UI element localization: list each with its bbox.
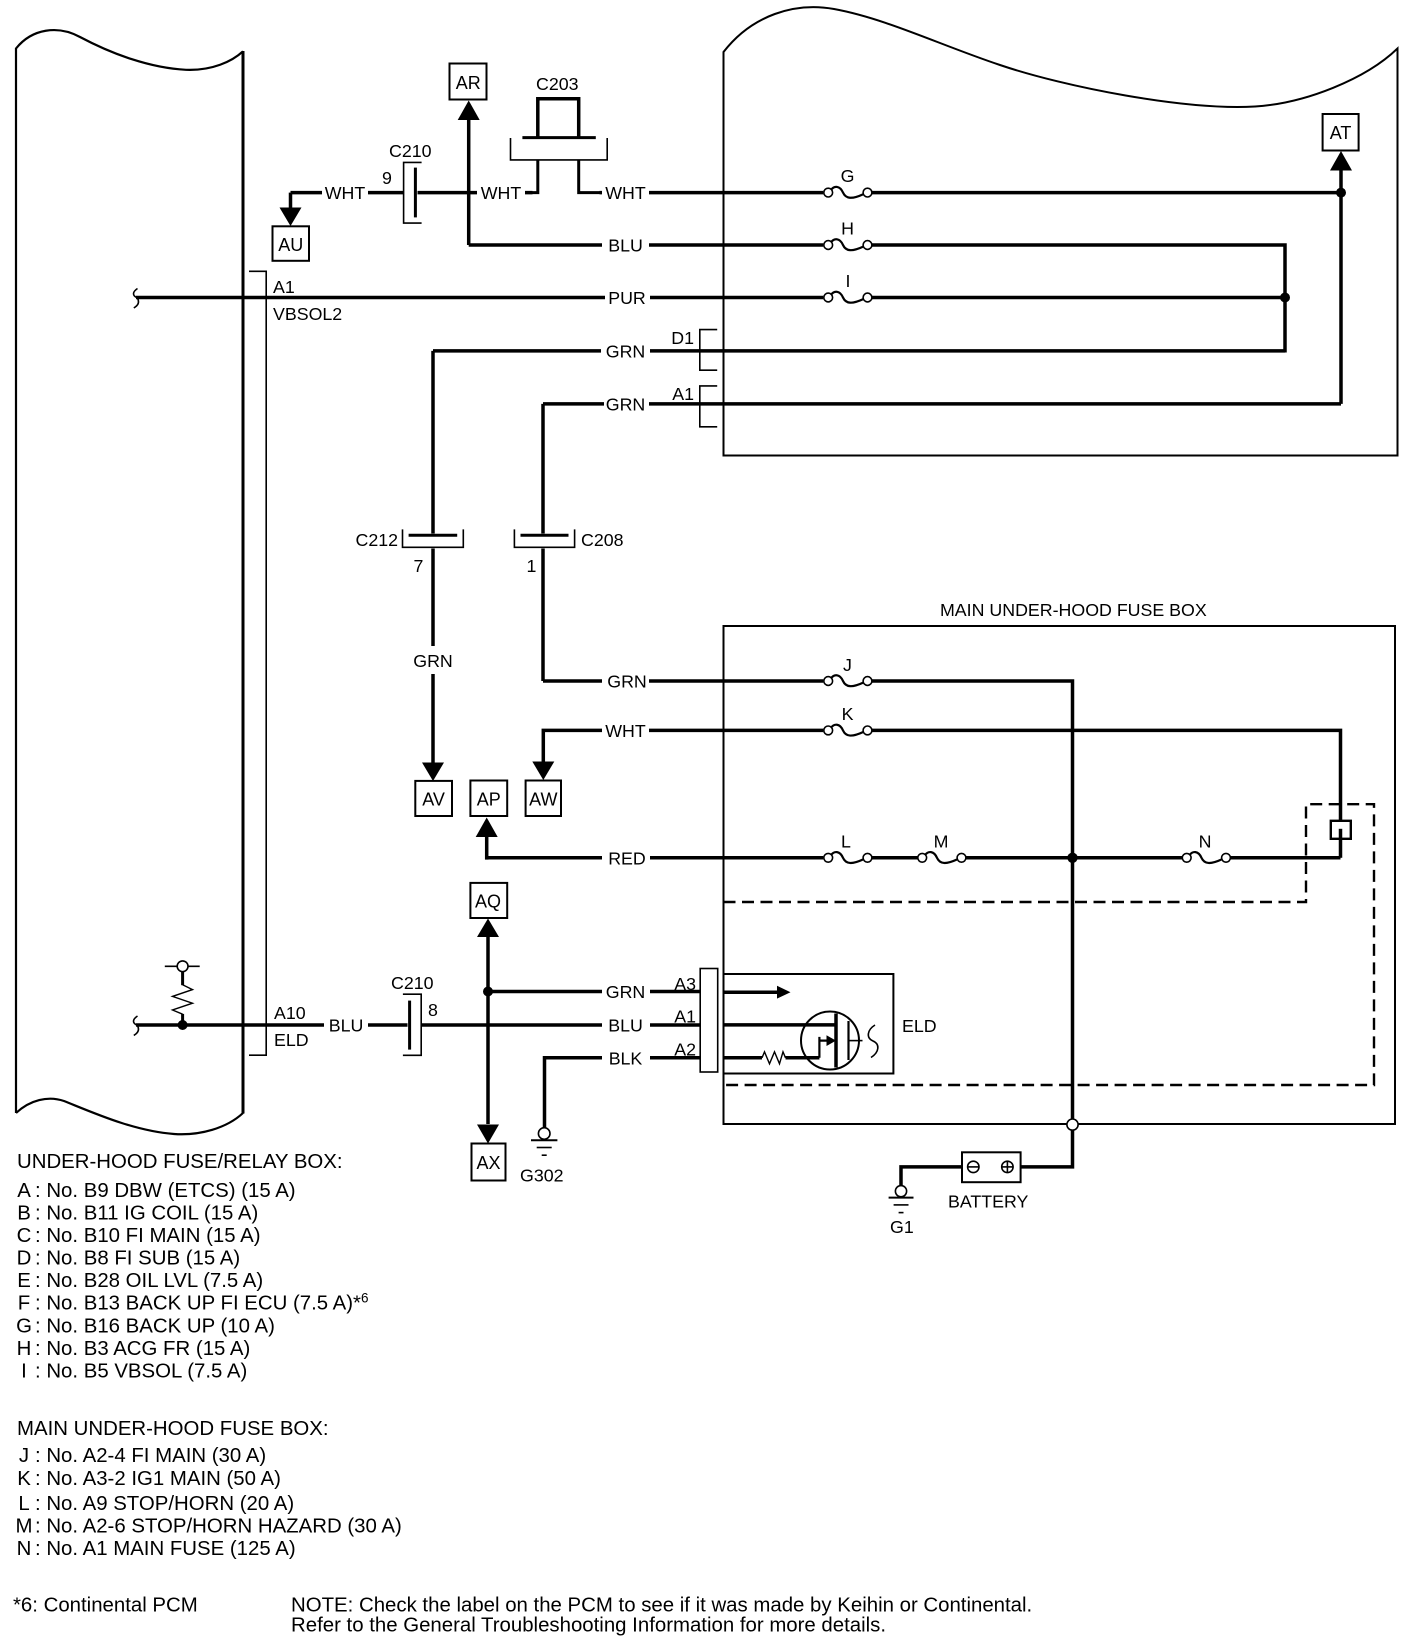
svg-text:: No. B13 BACK UP FI ECU (7.5: : No. B13 BACK UP FI ECU (7.5 A)*6 <box>35 1291 369 1315</box>
svg-text:: No. A3-2 IG1 MAIN (50 A): : No. A3-2 IG1 MAIN (50 A) <box>35 1468 281 1490</box>
riser C212 (GRN D1 row down to AV) <box>431 351 435 765</box>
svg-text:PUR: PUR <box>608 288 646 308</box>
wire WHT row (AU elbow to G fuse) <box>291 191 824 195</box>
svg-text:*6: Continental PCM: *6: Continental PCM <box>13 1595 198 1617</box>
connector A1 bracket <box>672 384 717 427</box>
svg-text:GRN: GRN <box>607 671 647 691</box>
small box AP <box>470 781 507 817</box>
fusible link square (main fuse element) <box>1331 821 1351 858</box>
ground G302 <box>520 1128 564 1186</box>
junction dot G row <box>1336 188 1346 198</box>
svg-text:C212: C212 <box>355 530 398 550</box>
arrow down into AX <box>477 1125 499 1144</box>
battery <box>948 1152 1029 1211</box>
svg-text:L: L <box>841 832 851 852</box>
svg-text:G1: G1 <box>890 1217 914 1237</box>
node A1 VBSOL2 label <box>273 277 342 324</box>
svg-text:AQ: AQ <box>475 892 501 912</box>
small box AV <box>415 781 452 816</box>
small box AW <box>526 781 561 817</box>
wire BLU row (AR elbow into box to H fuse) <box>469 243 824 247</box>
svg-text:: No. A1 MAIN FUSE (125 A): : No. A1 MAIN FUSE (125 A) <box>35 1538 296 1560</box>
legend: under-hood fuse/relay box list <box>16 1151 368 1383</box>
svg-text:AX: AX <box>476 1153 500 1173</box>
svg-text:: No. B10 FI MAIN (15 A): : No. B10 FI MAIN (15 A) <box>35 1225 261 1247</box>
svg-text:BLU: BLU <box>608 236 643 256</box>
wire BLU A10 row from strip to C210 pin8 <box>136 1023 408 1027</box>
svg-text:J: J <box>19 1445 29 1467</box>
ELD internal arrow (A3 output) <box>724 986 791 999</box>
wire GRN A3 row from AQ/AX riser to ELD connector <box>488 990 700 994</box>
connector bracket on left strip (C210 row strip) <box>249 271 266 1055</box>
arrow down into AU <box>280 208 302 227</box>
svg-text:WHT: WHT <box>325 183 366 203</box>
connector D1 bracket <box>671 328 717 370</box>
wire RED row elbow up to AP <box>487 834 824 860</box>
node A10 ELD label <box>274 1003 309 1050</box>
svg-text:8: 8 <box>428 1000 438 1020</box>
fuse M <box>918 832 966 863</box>
svg-text:1: 1 <box>527 556 537 576</box>
svg-text:Refer to the General Troublesh: Refer to the General Troubleshooting Inf… <box>291 1615 886 1637</box>
main under-hood fuse box outline <box>724 626 1396 1124</box>
svg-text:B: B <box>17 1203 31 1225</box>
svg-text:I: I <box>846 271 851 291</box>
svg-text:BLU: BLU <box>608 1016 643 1036</box>
wire L to M <box>872 856 918 860</box>
svg-text:AV: AV <box>422 790 445 810</box>
svg-text:G: G <box>16 1316 32 1338</box>
junction dot GRN A3 row <box>483 987 493 997</box>
wire AU drop <box>289 193 293 209</box>
svg-text:A10: A10 <box>274 1003 306 1023</box>
svg-text:: No. A9 STOP/HORN (20 A): : No. A9 STOP/HORN (20 A) <box>35 1493 294 1515</box>
arrow up into AQ <box>477 919 499 938</box>
wire I fuse to junction <box>872 296 1285 300</box>
svg-text:K: K <box>17 1468 31 1490</box>
svg-text:K: K <box>842 704 854 724</box>
svg-text:: No. B9 DBW (ETCS) (15 A): : No. B9 DBW (ETCS) (15 A) <box>35 1180 296 1202</box>
svg-text:: No. B28 OIL LVL (7.5 A): : No. B28 OIL LVL (7.5 A) <box>35 1270 263 1292</box>
svg-text:E: E <box>17 1270 31 1292</box>
PCM box (torn-edge outline, top right) <box>724 7 1398 455</box>
ELD internal BLU feed to transistor <box>724 1023 837 1027</box>
connector C203 <box>511 74 608 193</box>
wire N fuse to link riser <box>1231 856 1341 860</box>
svg-text:7: 7 <box>414 556 424 576</box>
ELD connector bracket A3/A1/A2 <box>674 969 717 1073</box>
svg-text:H: H <box>841 219 854 239</box>
fuse G <box>824 166 872 198</box>
svg-text:L: L <box>18 1493 29 1515</box>
connector C210 pin 8 <box>391 973 438 1055</box>
arrow down into AW <box>532 762 554 781</box>
svg-text:: No. A2-4 FI MAIN (30 A): : No. A2-4 FI MAIN (30 A) <box>35 1445 266 1467</box>
svg-text:AT: AT <box>1330 123 1352 143</box>
wire G fuse to AT junction <box>872 191 1341 195</box>
connector C208 <box>514 529 623 576</box>
svg-text:: No. A2-6 STOP/HORN HAZARD (3: : No. A2-6 STOP/HORN HAZARD (30 A) <box>35 1516 402 1538</box>
fuse L <box>824 832 872 863</box>
ELD unit box <box>724 974 894 1074</box>
wire GRN A1 row (C208 riser elbow into box) <box>543 402 1341 406</box>
ELD transistor (MOSFET in circle) <box>801 1012 878 1070</box>
svg-text:G: G <box>841 166 855 186</box>
svg-text:A1: A1 <box>674 1007 696 1027</box>
svg-text:A2: A2 <box>674 1040 696 1060</box>
svg-text:WHT: WHT <box>481 183 522 203</box>
arrow up into AT <box>1330 151 1352 171</box>
svg-text:GRN: GRN <box>606 342 646 362</box>
svg-text:H: H <box>17 1338 32 1360</box>
svg-text:F: F <box>18 1293 30 1315</box>
riser AQ to AX (GRN vertical) <box>486 934 490 1124</box>
svg-text:WHT: WHT <box>605 183 646 203</box>
svg-text:D1: D1 <box>671 328 694 348</box>
connector C210 pin 9 <box>382 141 432 223</box>
svg-text:BLK: BLK <box>609 1048 643 1068</box>
riser to AT <box>1339 168 1343 404</box>
svg-text:M: M <box>934 832 949 852</box>
svg-text:BATTERY: BATTERY <box>948 1192 1029 1212</box>
wire BLU row from C210-8 to ELD connector <box>422 1023 701 1027</box>
svg-text:I: I <box>21 1361 27 1383</box>
junction dot L/M/N row <box>1067 853 1077 863</box>
svg-text:AU: AU <box>278 235 303 255</box>
fuse K <box>824 704 872 736</box>
junction dot I row <box>1280 293 1290 303</box>
resistor (ELD sensing element above A10 wire) <box>165 961 200 1025</box>
riser C208 (GRN A1 row down to J row) <box>543 404 602 681</box>
svg-text:G302: G302 <box>520 1166 564 1186</box>
fuse N <box>1182 832 1230 863</box>
connector C212 <box>355 529 463 576</box>
wire BLK A2 row elbow to ELD connector <box>545 1056 701 1128</box>
fuse I <box>824 271 872 303</box>
small box AU <box>273 226 310 260</box>
svg-text:J: J <box>843 655 852 675</box>
fuse J <box>824 655 872 686</box>
wire M to N <box>966 856 1182 860</box>
junction dot on A10 wire <box>178 1020 188 1030</box>
svg-text:AP: AP <box>477 790 501 810</box>
wire GRN row into J fuse <box>649 679 823 683</box>
wire continuation squiggle (PUR row) <box>134 289 139 308</box>
ground G1 <box>889 1186 914 1237</box>
svg-text:MAIN UNDER-HOOD FUSE BOX:: MAIN UNDER-HOOD FUSE BOX: <box>17 1418 329 1440</box>
open circle junction on fuse box bottom edge <box>1067 1119 1078 1130</box>
arrow down into AV <box>422 763 444 782</box>
arrow up into AR <box>458 101 480 121</box>
fuse H <box>824 219 872 251</box>
svg-text:GRN: GRN <box>606 395 646 415</box>
svg-text:: No. B11 IG COIL (15 A): : No. B11 IG COIL (15 A) <box>35 1203 258 1225</box>
svg-text:: No. B8 FI SUB (15 A): : No. B8 FI SUB (15 A) <box>35 1248 240 1270</box>
svg-text:C203: C203 <box>536 74 579 94</box>
svg-text:A1: A1 <box>273 277 295 297</box>
svg-text:C: C <box>17 1225 32 1247</box>
svg-text:RED: RED <box>608 848 646 868</box>
svg-text:WHT: WHT <box>605 721 646 741</box>
wire continuation squiggle (BLU A10 row) <box>134 1016 139 1035</box>
svg-text:GRN: GRN <box>413 651 453 671</box>
svg-text:C210: C210 <box>389 141 432 161</box>
svg-text:A: A <box>17 1180 31 1202</box>
note text <box>291 1595 1032 1637</box>
small box AR <box>450 64 487 100</box>
ELD internal resistor on A2 gate line <box>724 1052 820 1064</box>
wire GRN D1 row (C212 riser elbow into box) <box>433 349 1285 353</box>
wire J fuse to down riser <box>872 681 1073 1119</box>
arrow up into AP <box>476 818 498 838</box>
wire K fuse to right elbow down to link square <box>872 730 1341 820</box>
svg-text:AR: AR <box>456 73 481 93</box>
svg-text:A1: A1 <box>672 384 694 404</box>
small box AQ <box>470 883 507 918</box>
svg-text:M: M <box>16 1516 33 1538</box>
svg-text:: No. B3 ACG FR (15 A): : No. B3 ACG FR (15 A) <box>35 1338 250 1360</box>
svg-text:A3: A3 <box>674 974 696 994</box>
wire PUR row from strip to box <box>136 296 823 300</box>
svg-text:BLU: BLU <box>329 1016 364 1036</box>
svg-text:UNDER-HOOD FUSE/RELAY BOX:: UNDER-HOOD FUSE/RELAY BOX: <box>17 1151 343 1173</box>
under-hood fuse/relay box (torn-edge outline, left strip) <box>16 30 243 1134</box>
svg-text:: No. B16 BACK UP (10 A): : No. B16 BACK UP (10 A) <box>35 1316 275 1338</box>
svg-text:C210: C210 <box>391 973 434 993</box>
svg-text:C208: C208 <box>581 530 624 550</box>
svg-text:N: N <box>17 1538 32 1560</box>
wire battery negative to G1 <box>901 1167 962 1186</box>
dashed internal partition <box>724 804 1375 1085</box>
small box AX <box>472 1144 506 1181</box>
svg-text:9: 9 <box>382 168 392 188</box>
svg-text:VBSOL2: VBSOL2 <box>273 304 342 324</box>
svg-text:: No. B5 VBSOL (7.5 A): : No. B5 VBSOL (7.5 A) <box>35 1361 247 1383</box>
wire WHT K row elbow down to AW <box>543 729 823 764</box>
svg-text:AW: AW <box>529 790 557 810</box>
riser BLU to AR (crosses WHT row) <box>467 117 471 245</box>
wire from open circle down to battery positive <box>1021 1130 1073 1167</box>
svg-text:MAIN UNDER-HOOD FUSE BOX: MAIN UNDER-HOOD FUSE BOX <box>940 600 1207 620</box>
svg-text:N: N <box>1199 832 1212 852</box>
svg-text:GRN: GRN <box>606 982 646 1002</box>
svg-text:ELD: ELD <box>902 1016 937 1036</box>
svg-text:NOTE: Check the label on the P: NOTE: Check the label on the PCM to see … <box>291 1595 1032 1617</box>
legend: main under-hood fuse box list <box>16 1418 402 1560</box>
wire H fuse to down elbow <box>872 245 1285 353</box>
small box AT <box>1323 114 1359 151</box>
svg-text:D: D <box>17 1248 32 1270</box>
svg-text:ELD: ELD <box>274 1030 309 1050</box>
